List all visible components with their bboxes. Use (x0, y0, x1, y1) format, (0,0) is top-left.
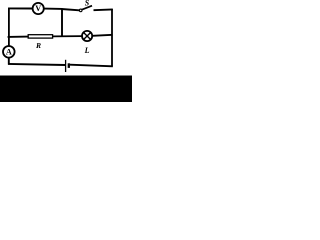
svg-text:A: A (6, 48, 12, 57)
wire junction vertical connector (61, 9, 63, 37)
svg-text:R: R (35, 41, 41, 50)
svg-text:V: V (35, 4, 41, 13)
wire top (junction to switch) (62, 9, 80, 10)
wire middle (R to lamp) (53, 35, 82, 37)
wire right vertical (111, 9, 113, 67)
ammeter A (3, 46, 15, 58)
wire top middle (V to junction) (44, 8, 63, 10)
switch S (79, 0, 92, 12)
svg-text:S: S (85, 0, 90, 7)
lamp L (82, 31, 92, 55)
wire bottom-right (battery to corner) (70, 65, 113, 67)
wire left vertical upper (8, 8, 10, 46)
black band at bottom (0, 76, 132, 103)
wire ammeter to bottom corner (8, 58, 10, 65)
voltmeter V (33, 3, 44, 14)
node middle-row left junction (8, 36, 29, 38)
resistor R (28, 35, 52, 51)
svg-text:L: L (84, 46, 90, 55)
battery (66, 60, 69, 72)
wire top-left horizontal (8, 7, 32, 9)
wire top-right (switch to corner) (94, 8, 113, 11)
wire middle-right (lamp to right vertical) (92, 35, 112, 36)
wire bottom-left (corner to battery) (8, 64, 65, 65)
